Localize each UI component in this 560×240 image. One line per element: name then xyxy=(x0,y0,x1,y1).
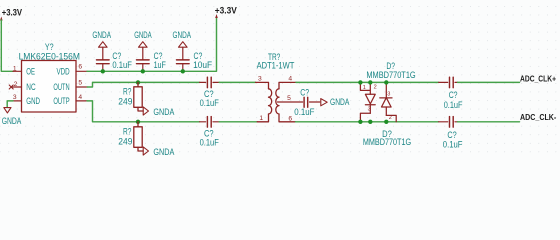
svg-text:6: 6 xyxy=(288,116,292,123)
junction dot xyxy=(101,69,105,73)
svg-text:0.1uF: 0.1uF xyxy=(112,60,132,70)
svg-text:5: 5 xyxy=(287,95,291,102)
svg-text:0.1uF: 0.1uF xyxy=(443,139,463,149)
junction dot xyxy=(181,69,185,73)
svg-text:0.1uF: 0.1uF xyxy=(200,138,220,148)
TR pin 4 lead xyxy=(279,82,296,88)
pin 3 GND xyxy=(13,100,22,102)
svg-text:1uF: 1uF xyxy=(154,60,167,70)
wire OUTN to series cap xyxy=(87,82,199,87)
svg-text:0.1uF: 0.1uF xyxy=(294,107,315,117)
svg-text:3: 3 xyxy=(258,75,262,82)
svg-text:1: 1 xyxy=(13,65,17,72)
pin 6 VDD xyxy=(76,70,87,72)
svg-text:2: 2 xyxy=(389,115,392,121)
wire to ADC_CLK- xyxy=(458,121,520,123)
svg-text:249: 249 xyxy=(118,97,132,107)
TR pin 1 lead xyxy=(257,114,268,122)
capacitor C? 0.1uF (decoupling 1) xyxy=(97,42,110,72)
capacitor C? 0.1uF (series bottom) xyxy=(200,117,220,128)
svg-text:1: 1 xyxy=(259,115,263,122)
wire OUTP to series cap xyxy=(87,101,200,122)
svg-text:0.1uF: 0.1uF xyxy=(444,100,463,110)
svg-text:GNDA: GNDA xyxy=(153,147,175,157)
svg-text:+3.3V: +3.3V xyxy=(2,7,23,18)
TR pin 5 center tap lead xyxy=(278,101,303,103)
svg-text:VDD: VDD xyxy=(57,66,70,76)
svg-text:ADC_CLK-: ADC_CLK- xyxy=(520,112,557,122)
svg-text:LMK62E0-156M: LMK62E0-156M xyxy=(19,52,80,62)
power +3.3V left xyxy=(0,7,23,21)
wire series cap to TR pin 3 xyxy=(219,81,255,83)
TR left winding xyxy=(269,89,272,114)
svg-text:C?: C? xyxy=(300,88,309,98)
TR right winding xyxy=(276,89,279,114)
capacitor C? 10uF (decoupling 3) xyxy=(177,42,190,72)
svg-text:ADT1-1WT: ADT1-1WT xyxy=(257,61,295,71)
svg-text:NC: NC xyxy=(26,82,36,92)
svg-text:249: 249 xyxy=(118,137,132,147)
svg-text:6: 6 xyxy=(78,64,82,71)
svg-text:GNDA: GNDA xyxy=(153,107,175,117)
svg-text:MMBD770T1G: MMBD770T1G xyxy=(363,137,411,147)
svg-text:3: 3 xyxy=(368,107,371,113)
svg-text:4: 4 xyxy=(78,94,82,101)
ground GNDA (center tap) xyxy=(321,99,327,106)
svg-text:GNDA: GNDA xyxy=(330,97,350,107)
svg-text:GND: GND xyxy=(26,96,40,106)
capacitor C? 0.1uF (output top) xyxy=(439,77,458,88)
svg-text:R?: R? xyxy=(123,86,131,96)
pin 1 OE xyxy=(13,70,22,72)
wire rail2 TR pin6 to cap xyxy=(296,121,439,123)
junction dot xyxy=(141,69,145,73)
TR pin 6 lead xyxy=(279,114,296,122)
svg-text:GNDA: GNDA xyxy=(92,30,111,40)
svg-text:OUTN: OUTN xyxy=(53,82,69,92)
svg-text:3: 3 xyxy=(387,92,390,98)
power +3.3V rail xyxy=(215,5,238,18)
svg-text:Y?: Y? xyxy=(45,42,54,52)
svg-text:4: 4 xyxy=(288,75,292,82)
wire series cap to TR pin 1 xyxy=(219,121,257,123)
oscillator Y? LMK62E0-156M body xyxy=(22,61,77,113)
svg-text:ADC_CLK+: ADC_CLK+ xyxy=(520,73,556,83)
svg-text:2: 2 xyxy=(14,81,18,88)
svg-text:1: 1 xyxy=(363,85,366,91)
junction dots diode rails xyxy=(358,80,362,84)
capacitor C? 0.1uF (center tap) xyxy=(304,97,320,107)
wire +3.3V to pin 1 xyxy=(1,20,13,71)
capacitor C? 0.1uF (output bottom) xyxy=(439,117,458,128)
svg-text:0.1uF: 0.1uF xyxy=(200,98,220,108)
svg-text:+3.3V: +3.3V xyxy=(215,5,238,16)
svg-text:GNDA: GNDA xyxy=(173,30,192,40)
svg-text:5: 5 xyxy=(78,80,82,87)
pin 2 NC + no-connect X xyxy=(11,86,22,88)
pin 4 OUTP xyxy=(76,100,87,102)
svg-text:2: 2 xyxy=(374,84,377,90)
wire rail1 TR pin4 to cap xyxy=(296,81,439,83)
resistor R? 249 (top) xyxy=(136,80,140,84)
svg-text:GNDA: GNDA xyxy=(2,116,22,126)
ground GNDA at pin 3 xyxy=(7,101,13,108)
resistor R? 249 (bottom) xyxy=(136,120,140,124)
capacitor C? 0.1uF (series top) xyxy=(200,77,220,88)
svg-text:GNDA: GNDA xyxy=(134,30,152,40)
svg-text:R?: R? xyxy=(123,126,131,136)
svg-text:MMBD770T1G: MMBD770T1G xyxy=(366,70,415,80)
svg-text:3: 3 xyxy=(13,94,17,101)
pin 5 OUTN xyxy=(76,86,87,88)
TR pin 3 lead xyxy=(256,82,269,88)
svg-text:OUTP: OUTP xyxy=(53,96,69,106)
svg-text:C?: C? xyxy=(449,90,458,100)
svg-text:10uF: 10uF xyxy=(193,60,212,70)
wire to ADC_CLK+ xyxy=(458,81,520,83)
wire VDD rail xyxy=(87,18,217,72)
capacitor C? 1uF (decoupling 2) xyxy=(137,42,150,72)
svg-text:OE: OE xyxy=(26,66,35,76)
